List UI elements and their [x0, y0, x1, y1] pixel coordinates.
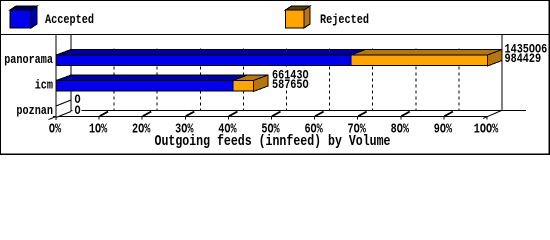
back baseline — [71, 110, 527, 112]
outer border — [1, 1, 550, 155]
svg-text:984429: 984429 — [505, 51, 542, 66]
bar panorama: top face blue part — [56, 50, 366, 56]
legend separator line — [0, 34, 550, 36]
svg-text:O%: O% — [49, 122, 62, 138]
white backing panorama values — [503, 43, 547, 63]
svg-text:58765O: 58765O — [272, 77, 309, 92]
bar panorama: top face orange part — [351, 50, 502, 56]
bar icm: top face blue part — [56, 75, 248, 81]
svg-text:2O%: 2O% — [132, 122, 151, 138]
svg-text:Outgoing feeds (innfeed) by Vo: Outgoing feeds (innfeed) by Volume — [155, 134, 391, 150]
bar panorama: blue front accepted — [56, 55, 351, 66]
svg-text:1OO%: 1OO% — [474, 122, 499, 138]
bar icm: right side face — [254, 75, 269, 92]
bar panorama: orange front rejected — [351, 55, 488, 66]
white backing icm values — [270, 67, 311, 89]
origin depth diagonal — [49, 111, 71, 120]
dashed gridlines 10%-90% (back positions) — [114, 49, 459, 111]
100% solid gridline — [501, 35, 503, 111]
front y-axis — [55, 35, 57, 120]
svg-text:1O%: 1O% — [89, 122, 108, 138]
svg-text:poznan: poznan — [16, 103, 53, 118]
white backing poznan values — [73, 94, 82, 114]
back y-axis 0% line — [70, 35, 72, 111]
bar icm: top face orange part — [233, 75, 268, 81]
svg-text:Accepted: Accepted — [45, 12, 94, 27]
legend cube Accepted — [10, 6, 37, 28]
front baseline — [53, 116, 488, 118]
bar icm: orange front rejected — [233, 81, 254, 92]
legend cube Rejected — [286, 6, 311, 28]
svg-text:8O%: 8O% — [391, 122, 410, 138]
svg-text:panorama: panorama — [4, 52, 53, 67]
svg-text:O: O — [75, 103, 81, 118]
svg-text:icm: icm — [35, 78, 53, 93]
axis ticks 10%-90% — [99, 112, 487, 120]
x axis labels — [49, 122, 499, 138]
bar panorama: right side face — [488, 50, 503, 67]
svg-text:Rejected: Rejected — [320, 12, 369, 27]
bar poznan: zero-value 3D outline — [56, 100, 71, 118]
svg-text:9O%: 9O% — [434, 122, 453, 138]
100% depth diagonal — [483, 111, 502, 119]
bar icm: blue front accepted — [56, 81, 233, 92]
